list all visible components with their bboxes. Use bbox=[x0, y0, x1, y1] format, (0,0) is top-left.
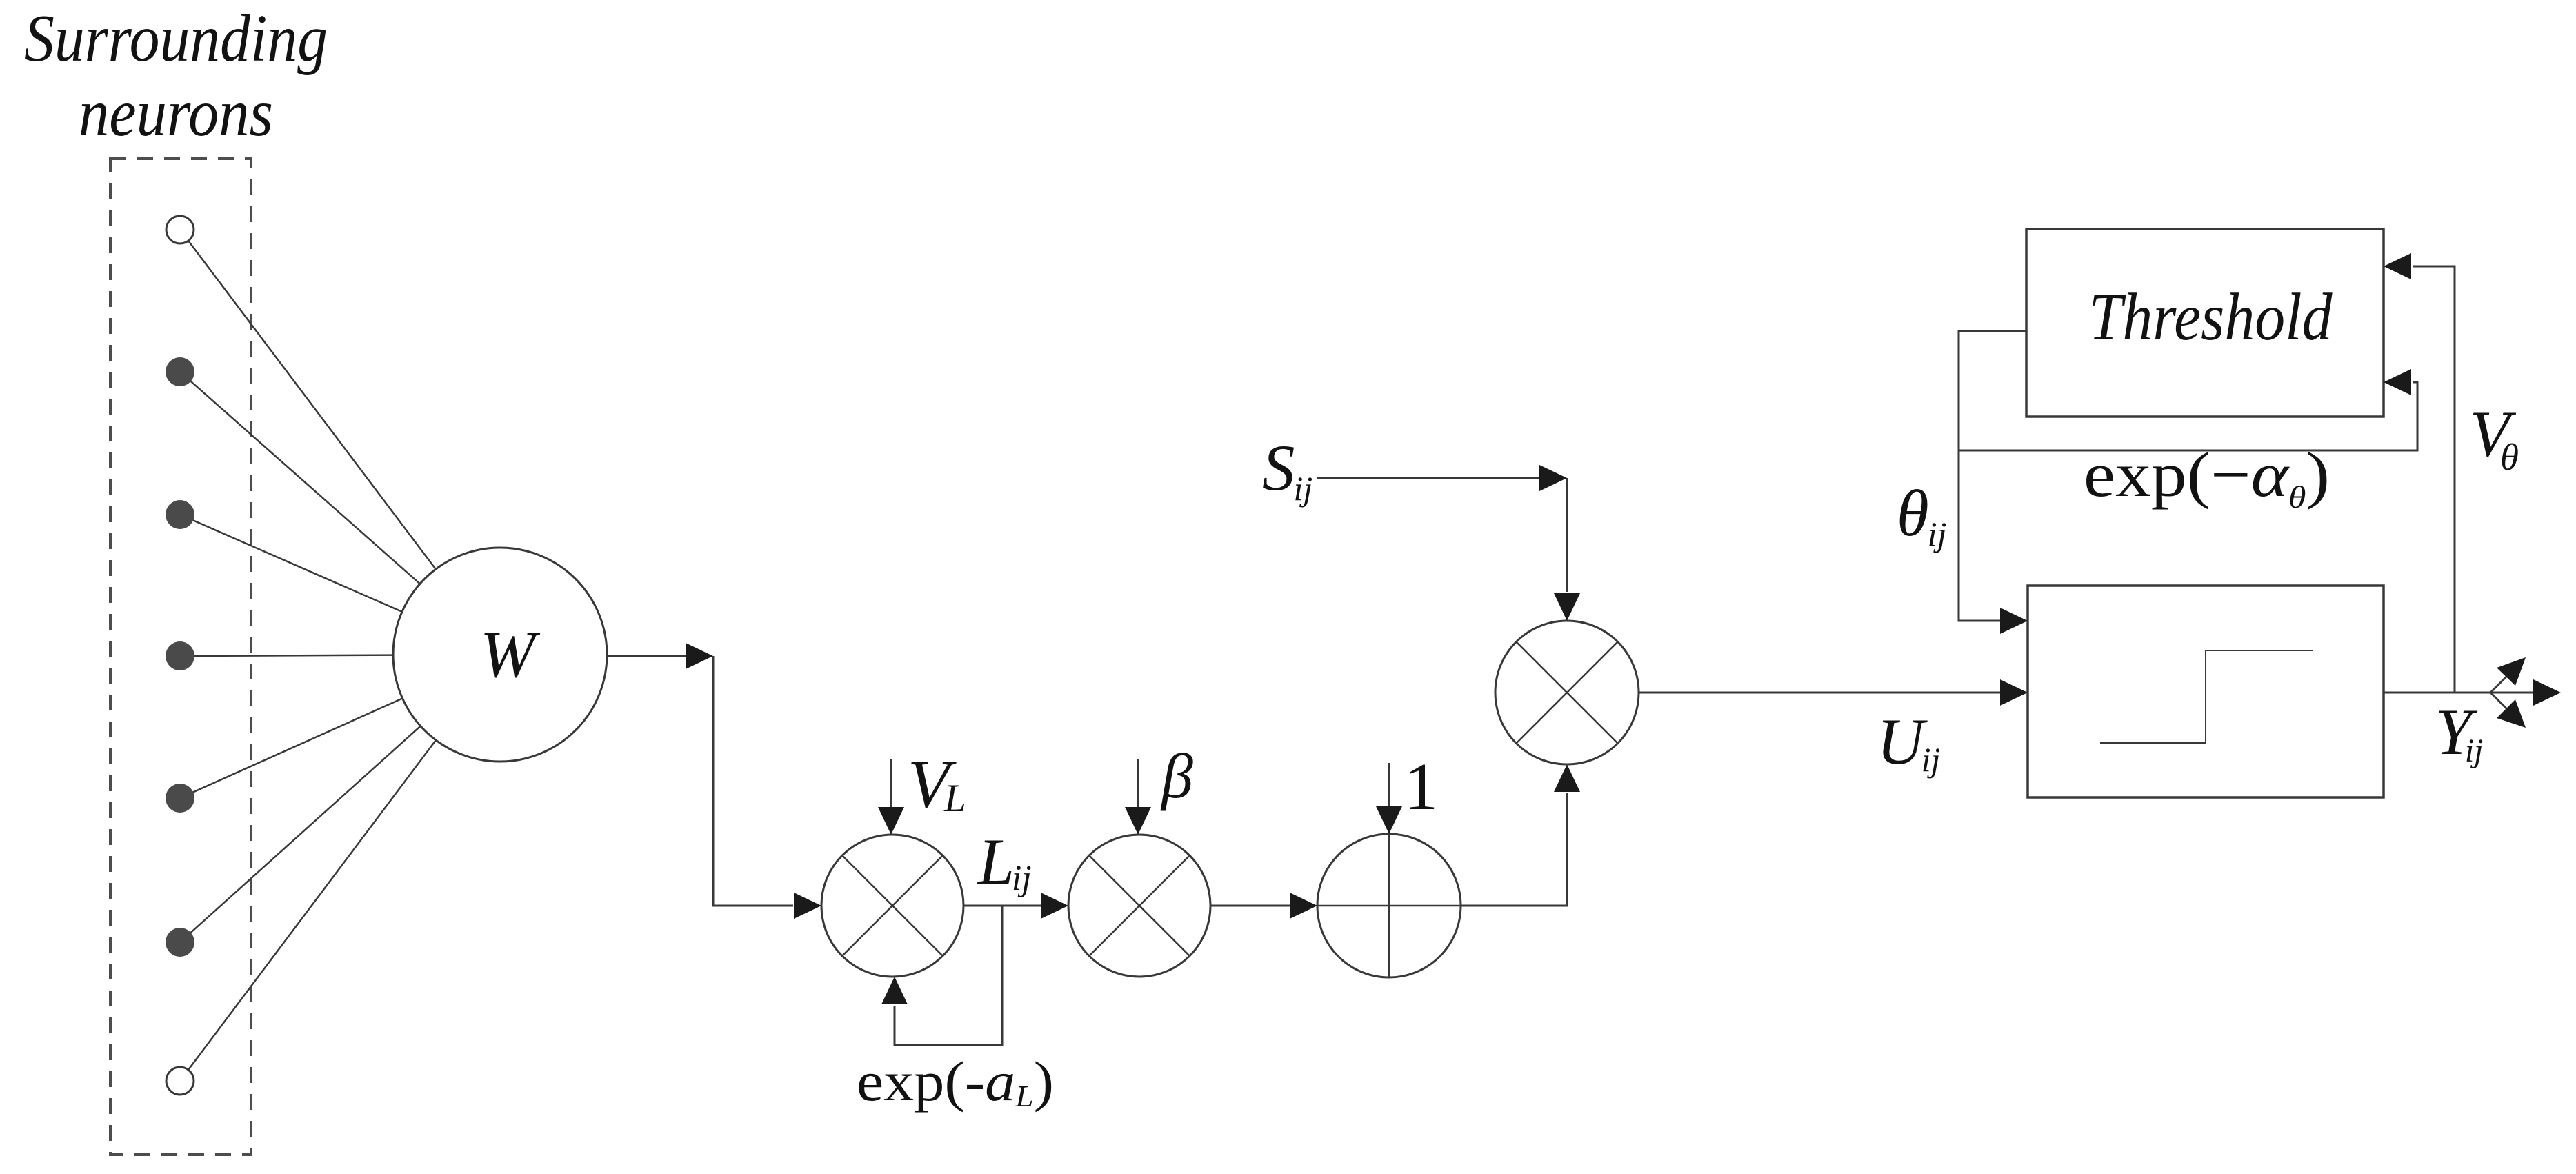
neuron node 5 filled bbox=[166, 784, 194, 813]
wire neuron5 to W bbox=[180, 655, 500, 798]
svg-text:Sij: Sij bbox=[1262, 431, 1312, 508]
arrowhead into M1 bbox=[794, 893, 821, 919]
wire adder to M3 bbox=[1461, 793, 1567, 906]
svg-text:exp(-aL): exp(-aL) bbox=[857, 1050, 1054, 1113]
label Surrounding neurons bbox=[24, 1, 328, 150]
branch wire SE bbox=[2490, 693, 2508, 710]
adder circle bbox=[1317, 834, 1461, 977]
svg-text:W: W bbox=[480, 617, 541, 691]
step function box bbox=[2028, 586, 2384, 797]
weight circle W bbox=[393, 548, 607, 762]
dashed box surrounding neurons bbox=[110, 159, 251, 1155]
multiplier M1 bbox=[821, 835, 963, 977]
wire neuron7 to W bbox=[180, 655, 500, 1081]
svg-text:Uij: Uij bbox=[1877, 705, 1940, 779]
input arrow beta bbox=[1137, 759, 1139, 808]
arrowhead V_theta into threshold box bbox=[2384, 253, 2411, 279]
wire neuron4 to W bbox=[180, 655, 500, 656]
wire S corner down bbox=[1566, 478, 1568, 592]
neuron node 3 filled bbox=[166, 500, 194, 529]
arrowhead up into M3 bbox=[1554, 764, 1580, 792]
svg-text:θij: θij bbox=[1897, 477, 1946, 553]
neuron node 7 open bbox=[166, 1067, 194, 1095]
svg-text:Yij: Yij bbox=[2435, 695, 2484, 769]
wire M3 to step box U_ij bbox=[1639, 692, 2001, 694]
arrowhead into step box bbox=[2000, 679, 2028, 706]
arrowhead NE bbox=[2497, 657, 2526, 686]
threshold box bbox=[2026, 229, 2384, 417]
svg-text:Vθ: Vθ bbox=[2470, 397, 2519, 478]
input arrow 1 bbox=[1388, 763, 1390, 808]
V_theta feedback wire bbox=[2413, 266, 2455, 693]
step function symbol bbox=[2100, 650, 2313, 743]
neuron node 4 filled bbox=[166, 641, 194, 670]
wire W output to corner bbox=[607, 655, 690, 657]
arrowhead SE bbox=[2497, 699, 2526, 728]
svg-text:β: β bbox=[1160, 741, 1193, 811]
wire M2 to adder bbox=[1210, 905, 1291, 907]
svg-text:Lij: Lij bbox=[977, 825, 1032, 898]
input arrow V_L bbox=[890, 759, 892, 808]
wire neuron2 to W bbox=[180, 372, 500, 655]
arrowhead right at S corner bbox=[1539, 465, 1567, 491]
arrowhead theta into step box bbox=[2000, 608, 2028, 634]
arrowhead east bbox=[2533, 679, 2561, 706]
output wire Y bbox=[2384, 692, 2534, 694]
wire M1 to M2 bbox=[963, 905, 1041, 907]
theta_ij wire from threshold to step box bbox=[1959, 331, 2026, 621]
arrowhead down into M3 bbox=[1554, 593, 1580, 621]
wire neuron3 to W bbox=[180, 515, 500, 655]
arrowhead into M2 bbox=[1041, 893, 1068, 919]
wire neuron6 to W bbox=[180, 655, 500, 942]
wire neuron1 to W bbox=[180, 230, 500, 655]
wire corner down bbox=[713, 656, 793, 906]
arrowhead right at corner bbox=[686, 643, 713, 669]
neuron node 2 filled bbox=[166, 357, 194, 386]
svg-text:Surrounding: Surrounding bbox=[24, 1, 328, 76]
svg-text:neurons: neurons bbox=[79, 76, 273, 150]
multiplier M2 bbox=[1068, 835, 1210, 977]
neuron node 6 filled bbox=[166, 928, 194, 957]
multiplier M3 bbox=[1495, 621, 1639, 764]
svg-text:1: 1 bbox=[1404, 750, 1438, 824]
feedback wire exp(-aL) bbox=[895, 906, 1002, 1045]
arrowhead feedback up into M1 bbox=[881, 977, 908, 1004]
branch wire NE bbox=[2490, 675, 2508, 693]
arrowhead exp feedback into threshold box bbox=[2384, 369, 2411, 395]
exp(-alpha_theta) feedback wire bbox=[1959, 382, 2417, 450]
svg-text:VL: VL bbox=[908, 746, 966, 822]
neuron node 1 open bbox=[166, 216, 194, 243]
svg-text:Threshold: Threshold bbox=[2089, 280, 2333, 355]
wire S_ij input bbox=[1317, 477, 1541, 479]
arrowhead into adder bbox=[1290, 893, 1317, 919]
